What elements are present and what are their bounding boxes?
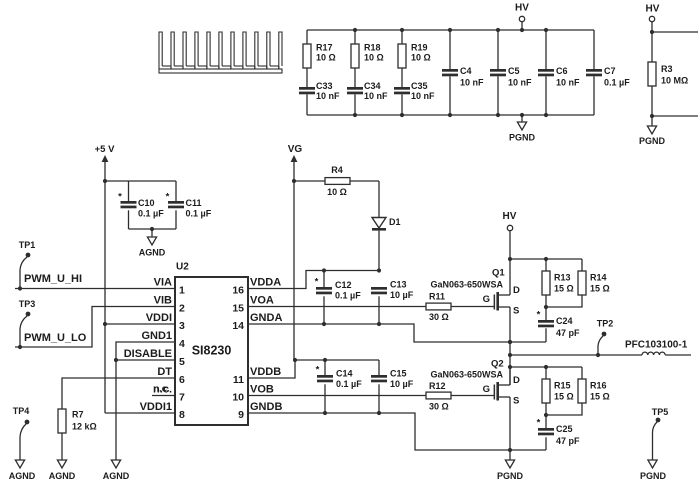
svg-text:G: G xyxy=(483,384,490,395)
svg-text:G: G xyxy=(483,294,490,305)
svg-text:PGND: PGND xyxy=(497,471,524,481)
svg-text:C34: C34 xyxy=(364,81,381,91)
svg-text:10 nF: 10 nF xyxy=(460,78,484,88)
svg-text:HV: HV xyxy=(503,211,517,222)
svg-text:16: 16 xyxy=(232,285,244,297)
svg-text:C33: C33 xyxy=(316,81,333,91)
svg-text:R16: R16 xyxy=(590,381,607,391)
svg-text:30 Ω: 30 Ω xyxy=(429,312,449,322)
svg-text:47 pF: 47 pF xyxy=(556,328,580,338)
svg-text:TP3: TP3 xyxy=(19,299,36,309)
svg-text:14: 14 xyxy=(232,320,244,332)
svg-text:S: S xyxy=(513,396,519,407)
svg-text:0.1 µF: 0.1 µF xyxy=(604,78,630,88)
svg-text:C13: C13 xyxy=(390,280,407,290)
svg-text:10 nF: 10 nF xyxy=(364,91,388,101)
svg-text:R14: R14 xyxy=(590,273,607,283)
svg-text:DT: DT xyxy=(157,366,172,378)
svg-text:C24: C24 xyxy=(556,316,573,326)
svg-text:AGND: AGND xyxy=(103,471,130,481)
svg-text:R7: R7 xyxy=(72,410,84,420)
svg-text:R11: R11 xyxy=(429,292,445,302)
svg-text:GND1: GND1 xyxy=(141,330,172,342)
svg-text:0.1 µF: 0.1 µF xyxy=(336,379,362,389)
svg-text:R3: R3 xyxy=(661,64,673,74)
svg-text:0.1 µF: 0.1 µF xyxy=(186,209,212,219)
svg-text:15 Ω: 15 Ω xyxy=(554,284,574,294)
svg-text:3: 3 xyxy=(179,320,185,332)
svg-text:R13: R13 xyxy=(554,273,571,283)
svg-text:Q1: Q1 xyxy=(492,268,505,279)
svg-text:8: 8 xyxy=(179,409,185,421)
svg-text:10 Ω: 10 Ω xyxy=(316,53,336,63)
svg-text:PGND: PGND xyxy=(640,471,667,481)
svg-text:5: 5 xyxy=(179,356,185,368)
svg-text:R15: R15 xyxy=(554,381,571,391)
svg-text:6: 6 xyxy=(179,374,185,386)
svg-text:PGND: PGND xyxy=(509,133,536,143)
svg-text:AGND: AGND xyxy=(49,471,76,481)
svg-text:C10: C10 xyxy=(138,198,155,208)
svg-text:Q2: Q2 xyxy=(491,359,504,370)
svg-text:TP5: TP5 xyxy=(652,407,669,417)
svg-text:*: * xyxy=(118,192,122,203)
svg-text:VG: VG xyxy=(288,144,303,155)
svg-text:*: * xyxy=(315,277,319,288)
svg-text:10 nF: 10 nF xyxy=(411,91,435,101)
svg-text:VDDI1: VDDI1 xyxy=(140,401,172,413)
svg-text:GNDA: GNDA xyxy=(250,312,282,324)
svg-text:C14: C14 xyxy=(336,369,353,379)
svg-text:D: D xyxy=(513,285,520,296)
svg-text:C25: C25 xyxy=(556,424,573,434)
svg-text:10: 10 xyxy=(232,392,244,404)
svg-text:GaN063-650WSA: GaN063-650WSA xyxy=(431,370,504,380)
svg-text:TP1: TP1 xyxy=(19,240,36,250)
svg-text:VOB: VOB xyxy=(250,384,274,396)
svg-text:VIB: VIB xyxy=(154,295,172,307)
svg-text:R12: R12 xyxy=(429,381,446,391)
svg-text:VDDB: VDDB xyxy=(250,366,281,378)
svg-text:15 Ω: 15 Ω xyxy=(590,392,610,402)
svg-text:HV: HV xyxy=(515,3,529,14)
svg-text:12 kΩ: 12 kΩ xyxy=(72,422,97,432)
svg-text:0.1 µF: 0.1 µF xyxy=(335,291,361,301)
svg-text:C6: C6 xyxy=(556,66,568,76)
svg-text:R4: R4 xyxy=(331,165,343,175)
svg-text:10 nF: 10 nF xyxy=(316,91,340,101)
svg-text:AGND: AGND xyxy=(139,248,166,258)
svg-text:TP2: TP2 xyxy=(597,319,614,329)
svg-text:10 nF: 10 nF xyxy=(508,78,532,88)
svg-text:C7: C7 xyxy=(604,66,616,76)
svg-text:S: S xyxy=(513,306,519,317)
svg-text:SI8230: SI8230 xyxy=(192,344,232,358)
svg-text:10 MΩ: 10 MΩ xyxy=(661,76,688,86)
svg-text:*: * xyxy=(537,310,541,321)
svg-text:VOA: VOA xyxy=(250,295,274,307)
svg-text:47 pF: 47 pF xyxy=(556,436,580,446)
svg-text:PFC103100-1: PFC103100-1 xyxy=(625,340,688,351)
svg-text:AGND: AGND xyxy=(9,471,36,481)
svg-text:2: 2 xyxy=(179,303,185,315)
svg-text:*: * xyxy=(316,365,320,376)
svg-text:U2: U2 xyxy=(176,262,189,273)
svg-text:10 nF: 10 nF xyxy=(556,78,580,88)
svg-text:9: 9 xyxy=(238,409,244,421)
svg-text:10 Ω: 10 Ω xyxy=(411,53,431,63)
svg-text:C5: C5 xyxy=(508,66,520,76)
svg-text:+5 V: +5 V xyxy=(95,144,115,155)
svg-text:15: 15 xyxy=(232,303,244,315)
svg-text:TP4: TP4 xyxy=(13,406,30,416)
svg-text:10 µF: 10 µF xyxy=(390,379,414,389)
svg-text:GNDB: GNDB xyxy=(250,401,282,413)
svg-text:1: 1 xyxy=(179,285,185,297)
svg-text:11: 11 xyxy=(233,374,244,386)
svg-text:15 Ω: 15 Ω xyxy=(554,392,574,402)
svg-text:R18: R18 xyxy=(364,43,381,53)
svg-text:VIA: VIA xyxy=(154,277,172,289)
svg-text:R19: R19 xyxy=(411,43,428,53)
svg-text:15 Ω: 15 Ω xyxy=(590,284,610,294)
svg-text:DISABLE: DISABLE xyxy=(124,348,172,360)
svg-text:C11: C11 xyxy=(186,198,202,208)
svg-text:10 Ω: 10 Ω xyxy=(327,187,347,197)
svg-text:10 Ω: 10 Ω xyxy=(364,53,384,63)
svg-text:30 Ω: 30 Ω xyxy=(429,402,449,412)
svg-text:C4: C4 xyxy=(460,66,472,76)
svg-text:PWM_U_HI: PWM_U_HI xyxy=(24,273,82,285)
svg-text:C35: C35 xyxy=(411,81,428,91)
svg-text:R17: R17 xyxy=(316,43,333,53)
svg-text:0.1 µF: 0.1 µF xyxy=(138,209,164,219)
svg-text:D: D xyxy=(513,375,520,386)
svg-text:D1: D1 xyxy=(389,217,401,227)
svg-text:GaN063-650WSA: GaN063-650WSA xyxy=(431,280,504,290)
svg-text:PGND: PGND xyxy=(639,136,666,146)
svg-text:HV: HV xyxy=(646,4,660,15)
svg-text:VDDI: VDDI xyxy=(146,312,172,324)
svg-text:n.c.: n.c. xyxy=(153,384,169,395)
svg-text:VDDA: VDDA xyxy=(250,277,281,289)
svg-text:C12: C12 xyxy=(335,280,352,290)
svg-text:PWM_U_LO: PWM_U_LO xyxy=(24,332,87,344)
svg-text:4: 4 xyxy=(179,338,185,350)
svg-text:7: 7 xyxy=(179,392,185,404)
svg-text:C15: C15 xyxy=(390,369,407,379)
svg-text:*: * xyxy=(537,418,541,429)
svg-text:10 µF: 10 µF xyxy=(390,290,414,300)
svg-text:*: * xyxy=(166,192,170,203)
